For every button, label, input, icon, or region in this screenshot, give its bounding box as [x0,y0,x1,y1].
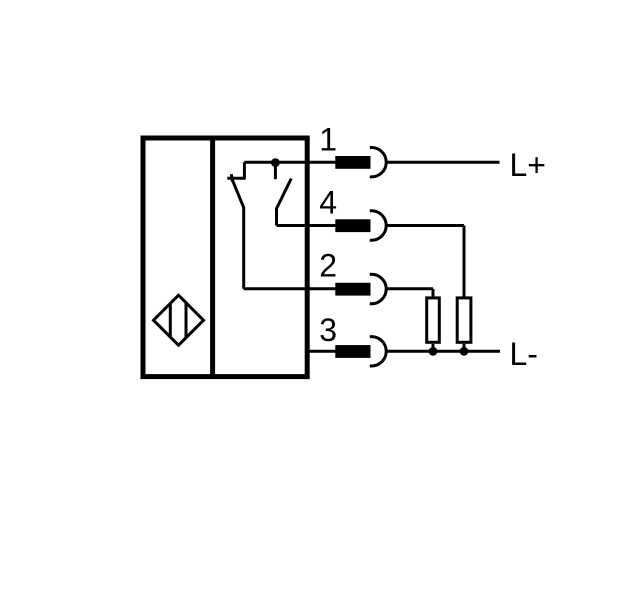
switch fixed contact line left (horizontal) [227,177,245,180]
svg-text:L+: L+ [510,147,546,183]
svg-text:L-: L- [510,336,538,372]
switch blade left (closed contact to pin 2) [232,179,244,289]
switch blade right (open contact to pin 4) [277,179,292,226]
switch contact tick [231,174,232,181]
wire pin 3 from body to connector [306,350,337,353]
wire L- from pin 3 connector to label [386,350,500,353]
pin 1 connector socket arc [370,148,386,177]
wire pin 4 to load resistor R2 (horizontal) [386,224,464,227]
wire pin 1 from switch to connector [244,161,336,164]
load resistor R1 [427,298,440,342]
svg-text:4: 4 [319,185,337,221]
pin 2 connector socket arc [370,274,386,303]
node junction dot R1 on L- wire [429,347,438,356]
wire pin 4 from switch to connector [277,224,337,227]
switch step wire left (vertical) [243,162,246,178]
wire pin 2 to load resistor R1 (vertical drop) [432,289,435,297]
wire pin 2 to load resistor R1 (horizontal) [386,287,433,290]
pin 2 connector contact (black rectangle) [335,283,370,296]
sensor body outline [143,138,307,377]
inductive sensor symbol inner line right [185,302,188,338]
switch fixed contact stub right [274,163,277,180]
pin 4 connector socket arc [370,211,386,240]
svg-text:1: 1 [319,121,337,157]
node junction dot R2 on L- wire [460,347,469,356]
load resistor R2 [457,298,471,342]
wire pin 2 from switch to connector [244,287,337,290]
pin 3 connector socket arc [370,337,386,366]
pin 3 connector contact (black rectangle) [335,345,370,358]
pin 4 connector contact (black rectangle) [335,219,370,232]
pin 1 connector contact (black rectangle) [335,156,370,169]
svg-text:3: 3 [319,312,337,348]
wire R1 bottom stub [432,344,435,351]
wire pin 4 to load resistor R2 (vertical) [463,226,466,298]
inductive sensor symbol diamond [154,295,204,345]
inductive sensor symbol inner line left [169,303,172,337]
node junction dot on pin 1 wire [271,158,280,167]
wire R2 bottom stub [463,344,466,351]
wire L+ from pin 1 connector to label [386,161,500,164]
svg-text:2: 2 [319,248,337,284]
sensor body divider line [210,136,215,378]
